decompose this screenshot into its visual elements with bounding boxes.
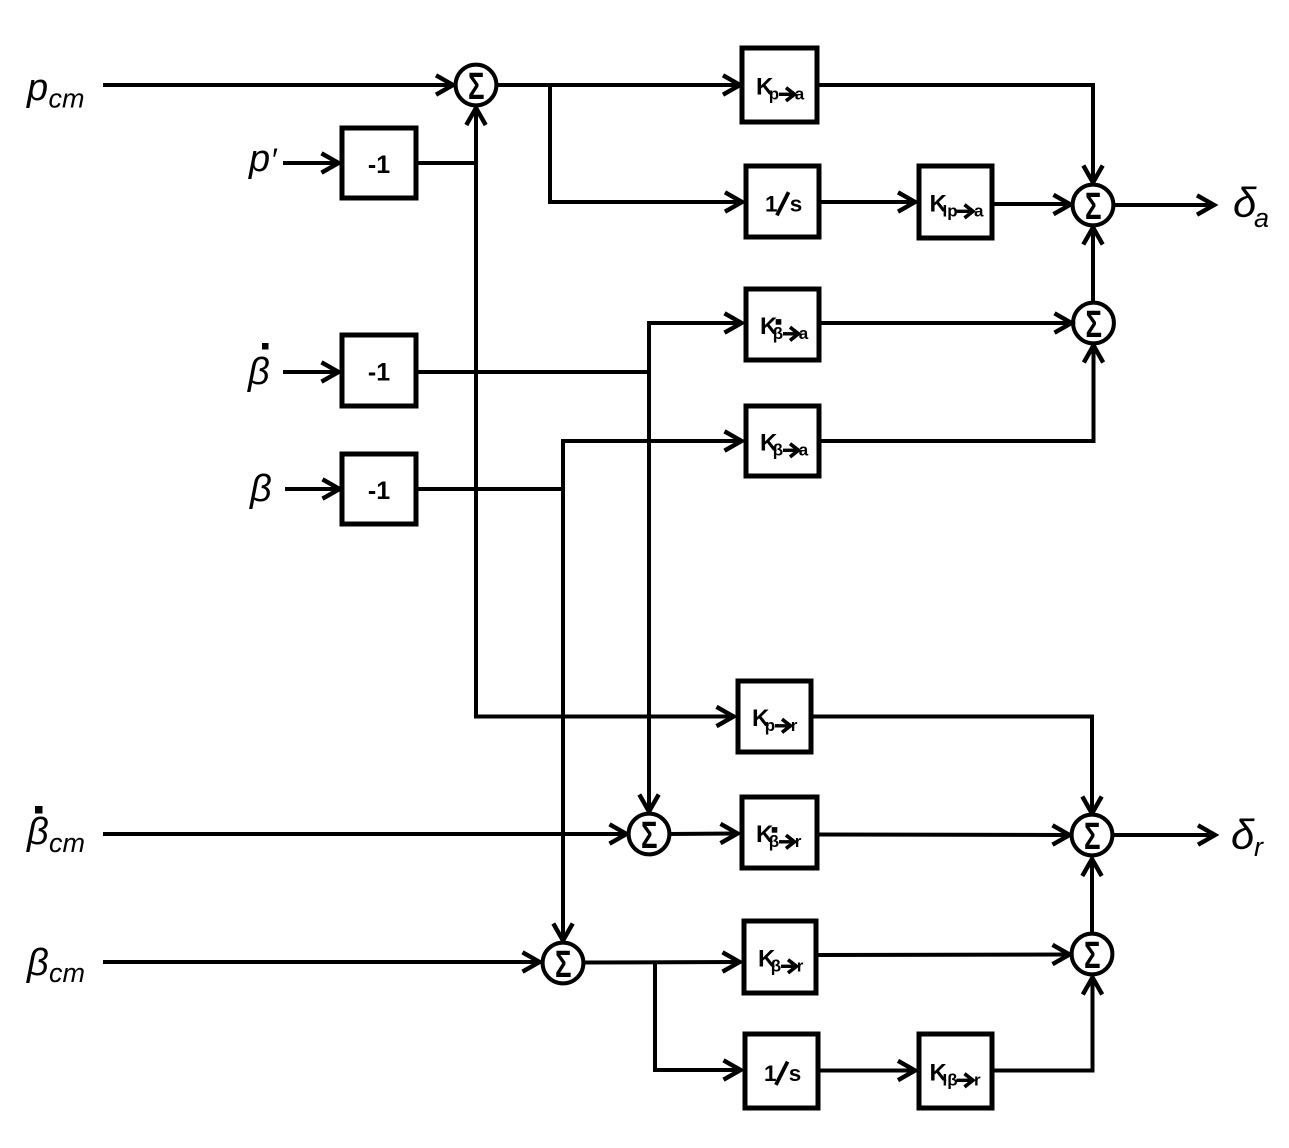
wire Kb-a to sum S3 bottom (819, 346, 1103, 442)
wire Kbdot-a to sum S3 (819, 313, 1072, 332)
svg-text:β: β (247, 351, 270, 393)
svg-text:r: r (791, 716, 798, 735)
wire Kp-a to sum S2 top (817, 85, 1103, 183)
wire 1/s to gain KIp-a (819, 192, 915, 211)
svg-text:r: r (797, 957, 804, 976)
svg-text:-1: -1 (368, 359, 390, 387)
input label beta_cm (26, 942, 85, 988)
gain block Kbetadot-r (742, 797, 817, 868)
inverter block -1 (beta-dot) (342, 335, 416, 406)
svg-text:1: 1 (764, 1061, 777, 1086)
svg-text:δ: δ (1231, 811, 1255, 858)
wire S3 up to S2 bottom (1083, 228, 1102, 303)
wire inverter beta output to junction (416, 487, 563, 491)
wire S1 to gain Kp-a (497, 75, 741, 94)
output label delta_r (1231, 811, 1264, 862)
summing junction S3 (beta terms sum, aileron) (1073, 303, 1114, 346)
wire inverter p output to junction (415, 161, 476, 165)
wire inverter beta-dot output to junction (416, 370, 649, 374)
wire beta to inverter (285, 479, 340, 498)
wire Kbdot-r to sum S5 (817, 825, 1070, 844)
svg-text:cm: cm (49, 958, 85, 988)
svg-text:′: ′ (271, 142, 278, 178)
input label beta-dot_cm (26, 806, 85, 858)
wire beta_cm to sum S6 (103, 952, 540, 971)
wire S5 to output delta_r (1113, 825, 1216, 844)
wire branch S6 output down to integrator 1/s (655, 963, 741, 1080)
svg-text:β: β (769, 832, 779, 851)
wire KIp-a to sum S2 (992, 195, 1071, 214)
svg-text:Σ: Σ (1085, 186, 1102, 228)
gain block Kp-a (742, 48, 817, 122)
wire S6 to gain Kbeta-r (584, 952, 740, 971)
summing junction S7 (beta terms sum, rudder) (1072, 934, 1113, 977)
wire beta-dot to inverter (283, 362, 339, 381)
wire beta-dot error up to Kbdot-a (649, 313, 742, 372)
gain block Kp-r (738, 681, 811, 752)
svg-text:r: r (795, 832, 802, 851)
svg-text:Σ: Σ (468, 66, 485, 108)
svg-text:Σ: Σ (555, 944, 572, 986)
svg-text:s: s (789, 1061, 802, 1086)
svg-text:-1: -1 (368, 151, 390, 179)
wire KIb-r to sum S7 bottom (992, 978, 1102, 1071)
svg-text:Iβ: Iβ (943, 1071, 958, 1090)
svg-text:cm: cm (49, 84, 85, 114)
wire 1/s to gain KIb-r (818, 1061, 915, 1080)
svg-text:p: p (248, 138, 270, 180)
svg-text:p: p (26, 67, 48, 109)
output label delta_a (1233, 179, 1269, 233)
svg-text:β: β (26, 942, 49, 984)
wire Kp-r to sum S5 top (811, 717, 1102, 814)
svg-text:a: a (1254, 203, 1269, 233)
wire branch S1 output down to integrator 1/s (550, 85, 742, 212)
gain block Kbeta-r (744, 921, 816, 993)
svg-text:p: p (765, 716, 775, 735)
gain block Kbeta-a (746, 406, 819, 476)
summing junction S2 (aileron sum) (1073, 185, 1114, 228)
svg-text:β: β (26, 811, 49, 853)
integrator block 1/s (roll) (746, 166, 819, 237)
summing junction S5 (rudder sum) (1072, 815, 1113, 858)
svg-text:a: a (795, 85, 805, 104)
svg-text:cm: cm (49, 828, 85, 858)
svg-text:β: β (773, 441, 783, 460)
inverter block -1 (p) (342, 128, 416, 198)
wire p-prime to inverter (283, 153, 339, 172)
gain block Kbetadot-a (746, 289, 819, 360)
svg-text:a: a (974, 202, 984, 221)
svg-text:Σ: Σ (641, 815, 658, 857)
svg-text:r: r (1254, 832, 1264, 862)
wire S7 up to S5 bottom (1082, 859, 1101, 932)
input label p_cm (26, 67, 85, 114)
wire beta error down to sum S6 (553, 489, 572, 941)
svg-text:p: p (769, 85, 779, 104)
svg-text:β: β (249, 468, 272, 510)
input label p-prime (248, 138, 278, 180)
wire S4 to gain Kbdot-r (670, 824, 738, 843)
summing junction S6 (beta_cm - beta) (543, 943, 584, 986)
svg-text:β: β (771, 957, 781, 976)
svg-text:1: 1 (765, 191, 778, 216)
wire beta-dot error down to sum S4 (639, 372, 658, 812)
svg-text:r: r (974, 1071, 981, 1090)
svg-text:Ip: Ip (943, 202, 958, 221)
input label beta (249, 468, 272, 510)
svg-text:Σ: Σ (1084, 816, 1101, 858)
summing junction S1 (p_cm - p) (456, 65, 497, 108)
svg-text:-1: -1 (368, 477, 390, 505)
svg-text:a: a (799, 441, 809, 460)
wire S2 to output delta_a (1114, 195, 1215, 214)
svg-text:β: β (773, 324, 783, 343)
wire p_cm to sum S1 (103, 75, 453, 94)
inverter block -1 (beta) (342, 454, 416, 524)
input label beta-dot (247, 343, 270, 393)
svg-text:a: a (799, 324, 809, 343)
svg-text:s: s (790, 191, 803, 216)
wire p error up to sum S1 bottom (466, 108, 485, 163)
wire p error down to gain Kp-r (476, 163, 734, 726)
summing junction S4 (beta-dot_cm - beta-dot) (629, 814, 670, 857)
gain block KIp-a (919, 166, 992, 238)
gain block KIbeta-r (919, 1034, 992, 1108)
wire beta error up to Kbeta-a (563, 431, 742, 489)
svg-text:Σ: Σ (1084, 935, 1101, 977)
integrator block 1/s (beta) (745, 1034, 818, 1108)
wire beta-dot_cm to sum S4 (103, 824, 627, 843)
wire Kb-r to sum S7 (816, 945, 1070, 964)
svg-text:Σ: Σ (1086, 304, 1103, 346)
